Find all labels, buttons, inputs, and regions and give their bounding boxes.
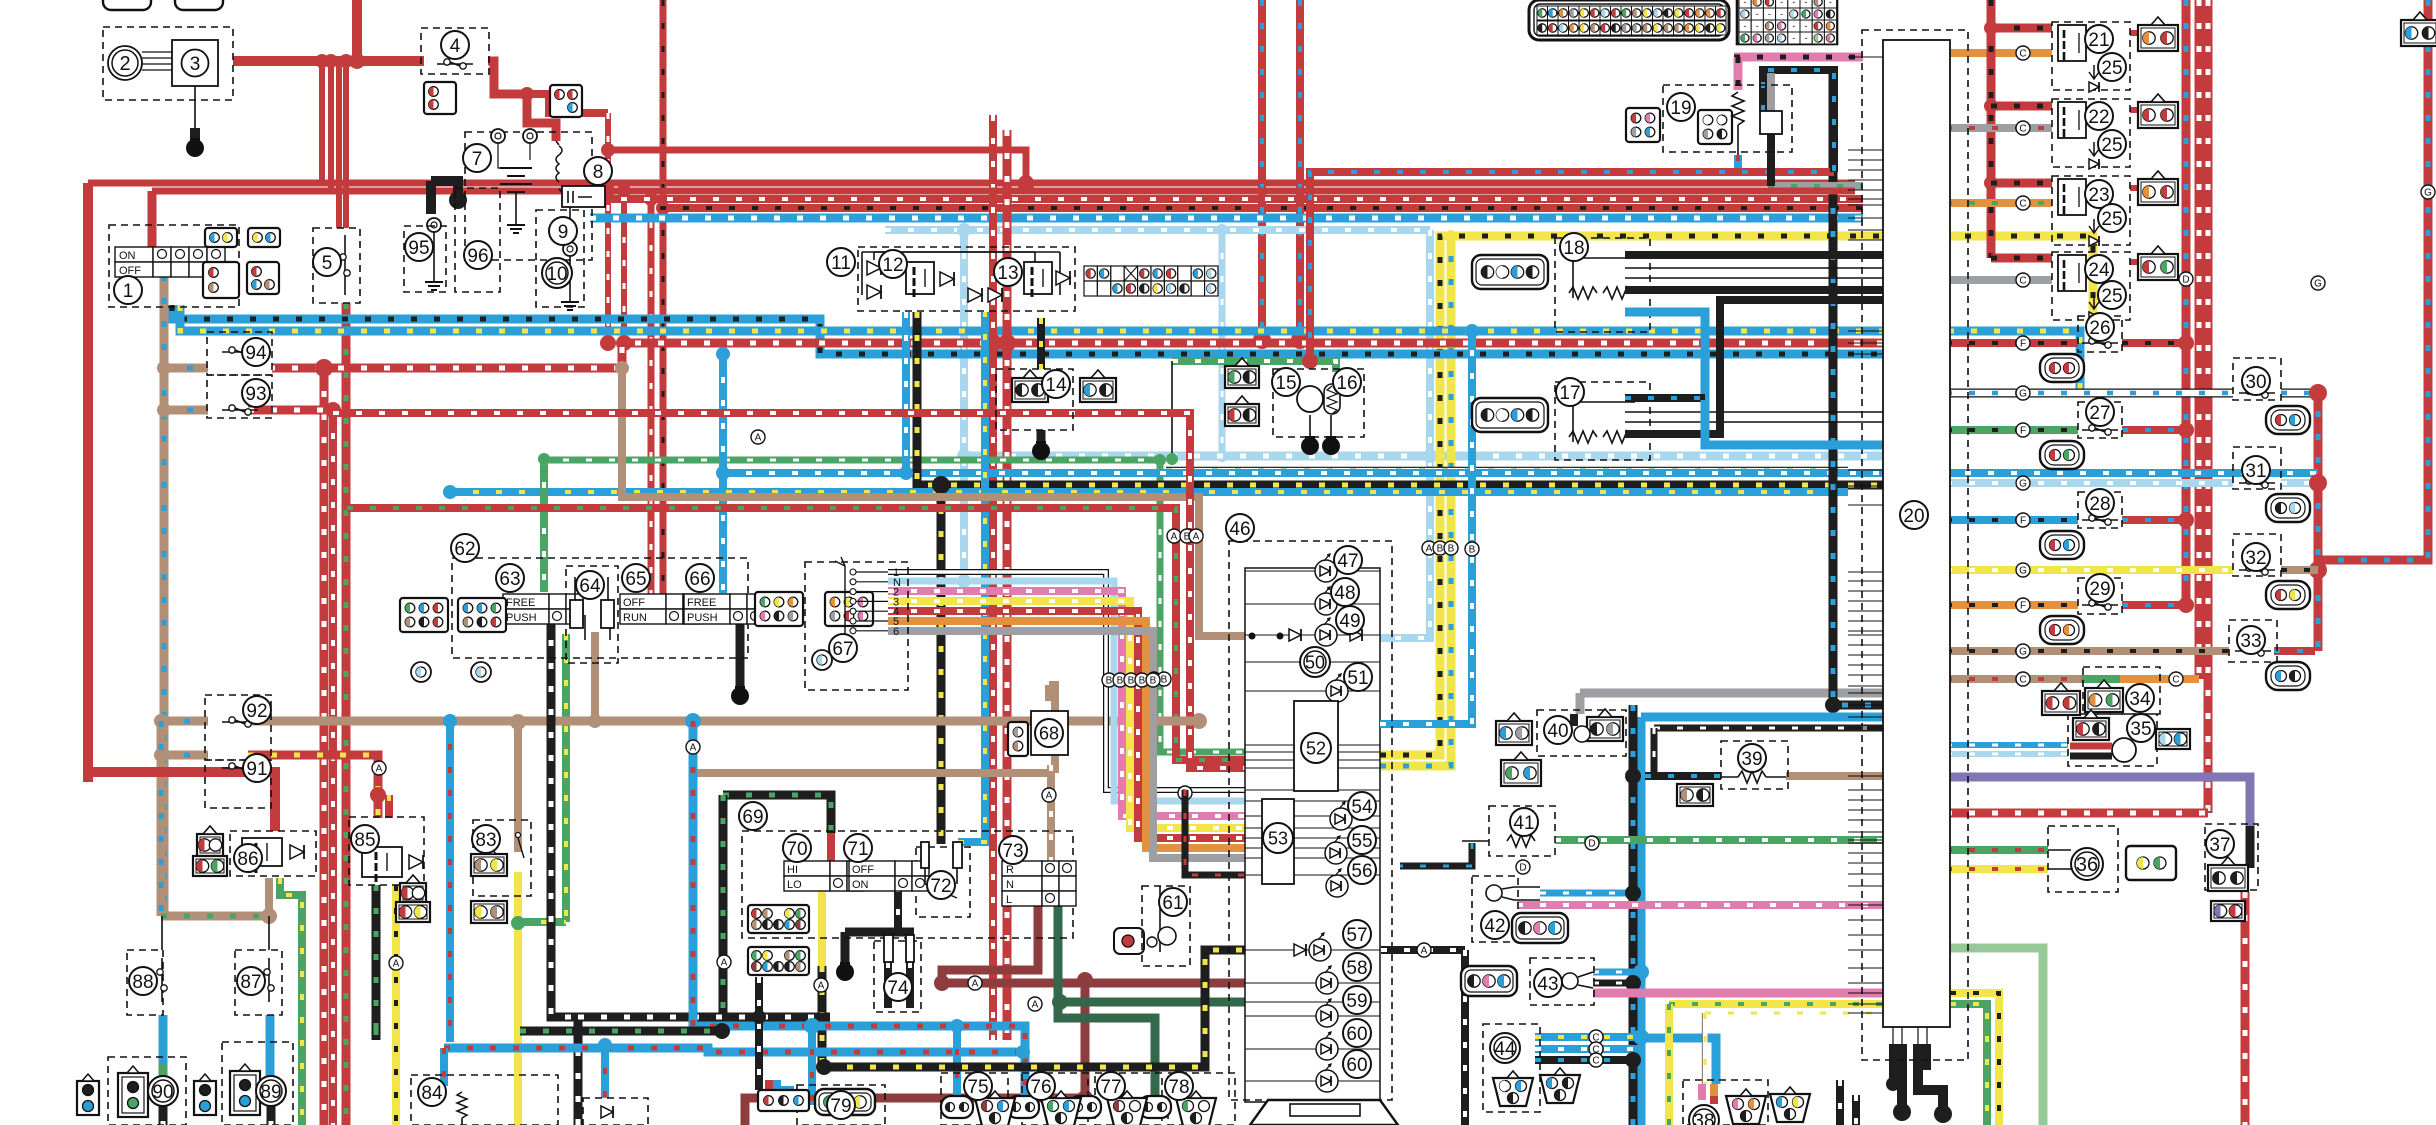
svg-text:G: G xyxy=(2424,187,2432,198)
svg-text:-: - xyxy=(1792,21,1795,31)
svg-text:92: 92 xyxy=(246,701,267,722)
svg-text:OFF: OFF xyxy=(852,864,874,876)
svg-text:B: B xyxy=(1448,543,1455,554)
svg-text:43: 43 xyxy=(1537,974,1558,995)
svg-text:D: D xyxy=(1519,862,1526,873)
svg-text:G: G xyxy=(2314,278,2322,289)
svg-text:25: 25 xyxy=(2101,209,2122,230)
svg-text:FREE: FREE xyxy=(506,597,535,609)
svg-text:68: 68 xyxy=(1039,723,1059,743)
svg-text:24: 24 xyxy=(2088,260,2110,281)
svg-text:39: 39 xyxy=(1741,749,1762,770)
svg-text:A: A xyxy=(1426,543,1433,554)
svg-text:18: 18 xyxy=(1563,238,1584,259)
svg-text:16: 16 xyxy=(1336,373,1357,394)
svg-text:95: 95 xyxy=(408,238,429,259)
svg-text:35: 35 xyxy=(2130,719,2151,740)
svg-text:-: - xyxy=(1792,33,1795,43)
svg-text:13: 13 xyxy=(997,263,1018,284)
svg-text:1: 1 xyxy=(123,281,134,302)
svg-text:LO: LO xyxy=(787,879,802,891)
svg-text:11: 11 xyxy=(831,253,851,274)
svg-text:22: 22 xyxy=(2088,107,2109,128)
svg-text:C: C xyxy=(2019,198,2026,209)
svg-text:84: 84 xyxy=(421,1083,443,1104)
svg-text:2: 2 xyxy=(119,53,130,75)
svg-text:A: A xyxy=(1032,999,1039,1010)
svg-text:62: 62 xyxy=(454,539,475,560)
svg-text:48: 48 xyxy=(1334,583,1355,604)
svg-text:65: 65 xyxy=(625,569,646,590)
svg-text:54: 54 xyxy=(1351,797,1373,818)
svg-text:A: A xyxy=(1046,790,1053,801)
svg-text:F: F xyxy=(2020,515,2026,526)
svg-text:28: 28 xyxy=(2089,494,2110,515)
svg-text:C: C xyxy=(2172,674,2179,685)
svg-text:5: 5 xyxy=(322,253,333,274)
svg-text:C: C xyxy=(2019,123,2026,134)
svg-text:R: R xyxy=(1006,864,1014,876)
svg-text:B: B xyxy=(1139,675,1146,686)
svg-text:B: B xyxy=(1106,675,1113,686)
svg-text:A: A xyxy=(690,742,697,753)
svg-text:94: 94 xyxy=(245,343,267,364)
svg-text:A: A xyxy=(721,957,728,968)
svg-text:87: 87 xyxy=(240,972,261,993)
svg-text:57: 57 xyxy=(1346,925,1367,946)
svg-text:B: B xyxy=(1437,543,1444,554)
svg-text:79: 79 xyxy=(830,1096,851,1117)
svg-text:B: B xyxy=(1161,674,1168,685)
svg-text:A: A xyxy=(755,432,762,443)
svg-text:-: - xyxy=(1792,0,1795,7)
svg-text:58: 58 xyxy=(1346,958,1367,979)
svg-text:A: A xyxy=(376,763,383,774)
svg-text:N: N xyxy=(1006,879,1014,891)
svg-text:G: G xyxy=(2019,388,2027,399)
svg-text:ON: ON xyxy=(119,250,136,262)
svg-text:A: A xyxy=(393,958,400,969)
svg-text:FREE: FREE xyxy=(687,597,716,609)
svg-text:60: 60 xyxy=(1346,1055,1367,1076)
svg-text:63: 63 xyxy=(499,569,520,590)
svg-text:G: G xyxy=(2019,646,2027,657)
svg-text:60: 60 xyxy=(1346,1024,1367,1045)
svg-text:19: 19 xyxy=(1670,98,1691,119)
svg-text:RUN: RUN xyxy=(623,612,647,624)
svg-text:83: 83 xyxy=(475,830,496,851)
svg-text:56: 56 xyxy=(1351,861,1372,882)
svg-text:27: 27 xyxy=(2089,403,2110,424)
svg-text:A: A xyxy=(1171,531,1178,542)
svg-text:A: A xyxy=(1421,945,1428,956)
svg-text:72: 72 xyxy=(930,876,951,897)
svg-text:25: 25 xyxy=(2101,135,2122,156)
svg-text:-: - xyxy=(1744,0,1747,7)
svg-text:31: 31 xyxy=(2245,461,2266,482)
svg-text:59: 59 xyxy=(1346,991,1367,1012)
svg-text:C: C xyxy=(2019,674,2026,685)
svg-text:10: 10 xyxy=(546,264,567,285)
svg-text:90: 90 xyxy=(152,1082,173,1103)
svg-text:47: 47 xyxy=(1337,551,1358,572)
svg-text:78: 78 xyxy=(1168,1077,1189,1098)
svg-text:PUSH: PUSH xyxy=(687,612,718,624)
svg-text:-: - xyxy=(1744,21,1747,31)
svg-text:29: 29 xyxy=(2089,579,2110,600)
svg-text:7: 7 xyxy=(472,149,483,170)
svg-text:-: - xyxy=(1829,0,1832,7)
svg-text:D: D xyxy=(1588,838,1595,849)
svg-text:-: - xyxy=(1805,33,1808,43)
svg-text:93: 93 xyxy=(245,384,266,405)
svg-text:PUSH: PUSH xyxy=(506,612,537,624)
svg-text:C: C xyxy=(2019,275,2026,286)
svg-text:61: 61 xyxy=(1162,893,1183,914)
svg-text:25: 25 xyxy=(2101,58,2122,79)
svg-text:3: 3 xyxy=(190,54,201,75)
svg-text:96: 96 xyxy=(467,246,488,267)
svg-text:B: B xyxy=(1150,675,1157,686)
svg-text:C: C xyxy=(2019,48,2026,59)
svg-text:8: 8 xyxy=(593,162,604,183)
svg-text:-: - xyxy=(1768,9,1771,19)
svg-text:G: G xyxy=(2019,565,2027,576)
svg-text:55: 55 xyxy=(1351,831,1372,852)
svg-text:50: 50 xyxy=(1305,652,1325,672)
svg-text:-: - xyxy=(1780,9,1783,19)
svg-text:-: - xyxy=(1780,0,1783,7)
svg-text:-: - xyxy=(1805,0,1808,7)
svg-text:9: 9 xyxy=(558,222,569,243)
svg-text:L: L xyxy=(1006,894,1012,906)
svg-text:77: 77 xyxy=(1100,1077,1121,1098)
svg-text:20: 20 xyxy=(1903,506,1924,527)
svg-text:73: 73 xyxy=(1002,841,1023,862)
svg-text:B: B xyxy=(1128,675,1135,686)
svg-text:86: 86 xyxy=(237,849,258,870)
svg-text:F: F xyxy=(2020,425,2026,436)
svg-text:A: A xyxy=(818,980,825,991)
svg-text:91: 91 xyxy=(246,759,267,780)
svg-text:76: 76 xyxy=(1030,1077,1051,1098)
svg-text:-: - xyxy=(1805,21,1808,31)
svg-text:71: 71 xyxy=(847,839,868,860)
svg-text:A: A xyxy=(1193,531,1200,542)
svg-text:D: D xyxy=(2182,274,2189,285)
svg-text:46: 46 xyxy=(1229,519,1250,540)
svg-text:51: 51 xyxy=(1347,668,1368,689)
svg-text:64: 64 xyxy=(579,576,601,597)
svg-text:F: F xyxy=(2020,338,2026,349)
svg-text:38: 38 xyxy=(1693,1111,1714,1125)
svg-text:23: 23 xyxy=(2088,185,2109,206)
svg-text:40: 40 xyxy=(1547,721,1568,742)
svg-text:32: 32 xyxy=(2245,548,2266,569)
svg-text:17: 17 xyxy=(1559,383,1580,404)
svg-text:49: 49 xyxy=(1339,611,1360,632)
svg-text:G: G xyxy=(2019,478,2027,489)
svg-text:B: B xyxy=(1469,544,1476,555)
svg-text:42: 42 xyxy=(1484,916,1505,937)
svg-text:A: A xyxy=(972,978,979,989)
svg-text:12: 12 xyxy=(882,255,903,276)
svg-text:-: - xyxy=(1756,21,1759,31)
svg-text:C: C xyxy=(1592,1055,1599,1066)
svg-text:B: B xyxy=(1117,675,1124,686)
svg-text:ON: ON xyxy=(852,879,869,891)
svg-text:44: 44 xyxy=(1494,1039,1516,1060)
svg-text:37: 37 xyxy=(2209,835,2230,856)
svg-text:85: 85 xyxy=(354,830,375,851)
svg-text:25: 25 xyxy=(2101,286,2122,307)
svg-text:15: 15 xyxy=(1275,373,1296,394)
svg-text:53: 53 xyxy=(1268,828,1288,848)
svg-text:21: 21 xyxy=(2088,30,2109,51)
svg-text:14: 14 xyxy=(1045,375,1067,396)
svg-text:70: 70 xyxy=(786,839,807,860)
svg-text:89: 89 xyxy=(260,1082,281,1103)
svg-text:88: 88 xyxy=(132,972,153,993)
svg-text:OFF: OFF xyxy=(623,597,645,609)
svg-text:F: F xyxy=(2020,600,2026,611)
svg-text:41: 41 xyxy=(1513,813,1534,834)
svg-text:74: 74 xyxy=(887,978,909,999)
svg-text:6: 6 xyxy=(893,626,899,638)
svg-text:-: - xyxy=(1756,9,1759,19)
svg-text:HI: HI xyxy=(787,864,798,876)
svg-text:33: 33 xyxy=(2240,631,2261,652)
svg-text:4: 4 xyxy=(450,36,461,57)
svg-text:34: 34 xyxy=(2129,689,2151,710)
svg-text:36: 36 xyxy=(2076,854,2098,876)
svg-text:66: 66 xyxy=(689,569,710,590)
svg-text:30: 30 xyxy=(2245,372,2266,393)
svg-text:26: 26 xyxy=(2089,318,2110,339)
svg-text:52: 52 xyxy=(1306,738,1326,758)
svg-text:75: 75 xyxy=(967,1077,988,1098)
svg-text:67: 67 xyxy=(832,639,853,660)
svg-text:69: 69 xyxy=(742,807,763,828)
